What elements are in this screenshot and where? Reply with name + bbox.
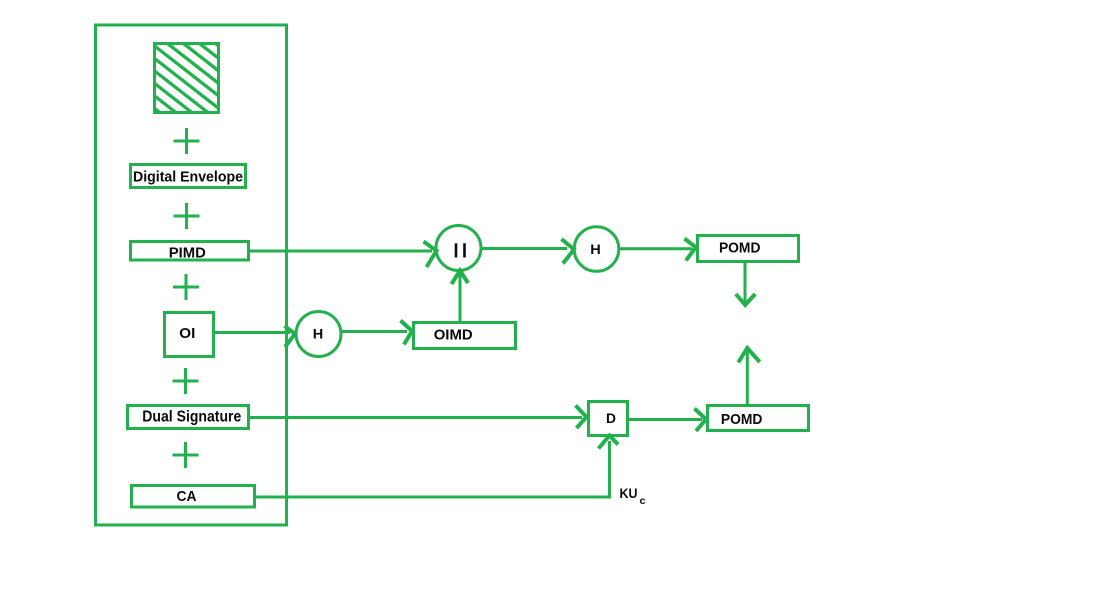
box OI bbox=[165, 313, 214, 357]
svg-text:H: H bbox=[590, 241, 601, 257]
svg-text:KU: KU bbox=[620, 485, 638, 501]
wire H1 to OIMD bbox=[341, 330, 407, 333]
box OIMD bbox=[414, 323, 516, 349]
circle concat || bbox=[436, 226, 481, 271]
svg-text:OIMD: OIMD bbox=[434, 327, 473, 344]
wire corner up to D bbox=[608, 441, 611, 499]
svg-text:POMD: POMD bbox=[719, 240, 761, 257]
wire OI to H1 bbox=[214, 331, 290, 334]
plus 2 bbox=[174, 203, 200, 229]
plus 3 bbox=[173, 274, 199, 300]
wire OIMD up to concat bbox=[459, 272, 462, 321]
svg-text:OI: OI bbox=[179, 325, 195, 342]
wire PIMD to concat circle bbox=[249, 250, 432, 253]
box Dual Signature bbox=[128, 406, 249, 429]
svg-text:Digital Envelope: Digital Envelope bbox=[133, 169, 243, 186]
circle H1 bbox=[296, 312, 341, 357]
box CA bbox=[132, 486, 255, 508]
box POMD bottom bbox=[708, 406, 809, 431]
arrowhead up into concat bbox=[452, 271, 469, 285]
box D bbox=[589, 402, 628, 436]
box PIMD bbox=[131, 242, 249, 262]
plus 4 bbox=[173, 368, 199, 394]
circle H2 bbox=[574, 227, 619, 272]
svg-text:H: H bbox=[313, 326, 324, 342]
wire concat to H2 bbox=[481, 247, 567, 250]
svg-text:Dual Signature: Dual Signature bbox=[142, 409, 241, 426]
arrow down from POMD top bbox=[736, 263, 755, 305]
arrowhead into H1 bbox=[285, 326, 296, 347]
svg-text:POMD: POMD bbox=[721, 411, 763, 428]
svg-text:PIMD: PIMD bbox=[169, 245, 206, 262]
label KUc bbox=[620, 485, 646, 507]
hatched square bbox=[150, 0, 223, 162]
arrow up from POMD bottom bbox=[738, 348, 759, 404]
outer container box bbox=[96, 25, 287, 525]
arrowhead up into D bbox=[599, 436, 619, 449]
arrowhead into POMD bottom bbox=[695, 409, 707, 432]
arrowhead into concat circle bbox=[424, 242, 437, 268]
svg-text:c: c bbox=[640, 495, 646, 507]
wire D to POMD bottom bbox=[629, 418, 702, 421]
arrowhead into D bbox=[576, 406, 587, 429]
box POMD top bbox=[698, 236, 799, 262]
svg-text:CA: CA bbox=[177, 488, 197, 505]
box Digital Envelope bbox=[131, 165, 246, 188]
plus 1 bbox=[174, 128, 200, 154]
arrowhead into POMD top bbox=[685, 239, 696, 261]
wire H2 to POMD top bbox=[619, 247, 692, 250]
wire CA to corner bbox=[255, 496, 611, 499]
arrowhead into H2 bbox=[562, 239, 575, 264]
wire Dual Signature to D bbox=[249, 416, 582, 419]
arrowhead into OIMD bbox=[401, 321, 413, 345]
plus 5 bbox=[173, 442, 199, 468]
svg-text:D: D bbox=[606, 410, 616, 426]
